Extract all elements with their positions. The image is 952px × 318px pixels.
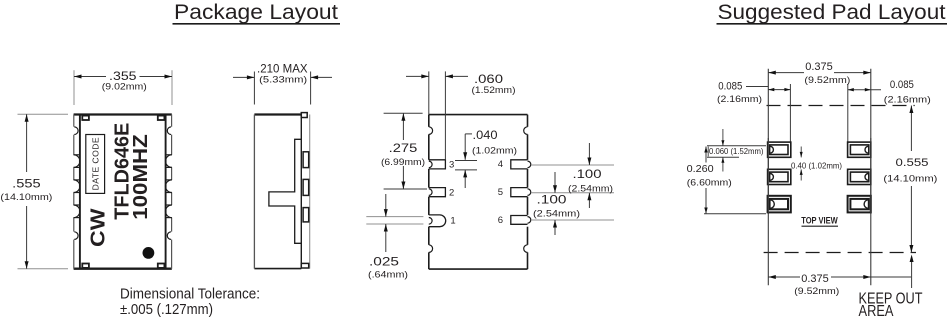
svg-text:(2.54mm): (2.54mm): [568, 183, 613, 194]
svg-text:(1.02mm): (1.02mm): [472, 145, 517, 156]
svg-text:CW: CW: [87, 208, 109, 247]
svg-text:Suggested Pad Layout: Suggested Pad Layout: [718, 0, 946, 24]
svg-text:.040: .040: [473, 130, 498, 142]
svg-text:0.375: 0.375: [801, 273, 829, 285]
svg-text:(6.99mm): (6.99mm): [381, 157, 425, 167]
svg-text:4: 4: [498, 159, 503, 170]
svg-text:.100: .100: [537, 194, 567, 206]
svg-text:0.060 (1.52mm): 0.060 (1.52mm): [709, 146, 764, 156]
svg-text:(14.10mm): (14.10mm): [0, 192, 52, 203]
svg-text:(.64mm): (.64mm): [368, 269, 408, 280]
svg-text:5: 5: [498, 187, 503, 198]
svg-text:(9.52mm): (9.52mm): [794, 286, 839, 297]
svg-text:6: 6: [498, 215, 503, 226]
svg-text:(5.33mm): (5.33mm): [259, 74, 307, 85]
svg-text:0.085: 0.085: [890, 79, 914, 91]
svg-text:(6.60mm): (6.60mm): [687, 177, 732, 188]
svg-text:100MHZ: 100MHZ: [130, 134, 152, 220]
svg-text:(9.02mm): (9.02mm): [102, 81, 147, 92]
svg-text:0.085: 0.085: [718, 80, 742, 92]
svg-text:(2.16mm): (2.16mm): [717, 94, 762, 105]
svg-text:.025: .025: [369, 257, 399, 269]
svg-text:0.555: 0.555: [896, 157, 929, 169]
svg-text:(2.54mm): (2.54mm): [533, 208, 580, 219]
svg-text:2: 2: [449, 188, 454, 199]
svg-text:1: 1: [450, 215, 455, 226]
svg-text:.555: .555: [12, 176, 41, 190]
svg-text:0.375: 0.375: [805, 61, 833, 73]
svg-text:(9.52mm): (9.52mm): [804, 75, 850, 86]
svg-text:DATE CODE: DATE CODE: [91, 137, 101, 190]
svg-text:0.260: 0.260: [687, 164, 714, 175]
svg-text:Package Layout: Package Layout: [174, 0, 338, 24]
svg-text:(1.52mm): (1.52mm): [472, 85, 516, 96]
svg-text:TOP VIEW: TOP VIEW: [801, 216, 838, 226]
svg-text:.275: .275: [389, 143, 418, 155]
svg-text:±.005 (.127mm): ±.005 (.127mm): [120, 301, 213, 318]
svg-text:Dimensional Tolerance:: Dimensional Tolerance:: [120, 285, 260, 302]
svg-text:(14.10mm): (14.10mm): [883, 174, 937, 185]
svg-text:(2.16mm): (2.16mm): [884, 95, 931, 106]
svg-text:.100: .100: [573, 169, 602, 181]
svg-text:AREA: AREA: [859, 303, 895, 318]
svg-text:3: 3: [449, 160, 454, 171]
svg-text:0.40 (1.02mm): 0.40 (1.02mm): [791, 161, 842, 171]
